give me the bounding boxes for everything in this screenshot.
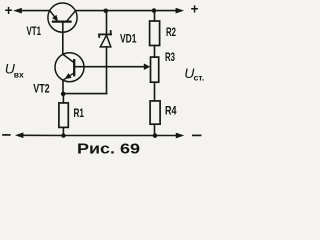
wire VT2 emitter down to node D <box>62 80 64 94</box>
resistor R1 <box>59 103 68 128</box>
label U_вх (input voltage) <box>5 61 24 80</box>
label U_ст (stabilized output voltage) <box>184 65 204 82</box>
wire bottom rail left to − terminal (with left arrow) <box>22 134 63 136</box>
node D (junction dot, emitter / R1 / zener wire) <box>61 92 66 97</box>
svg-text:+: + <box>191 2 199 17</box>
svg-text:вх: вх <box>14 69 24 79</box>
svg-text:ст.: ст. <box>194 72 205 82</box>
wire VT2 base to R3 wiper <box>74 66 144 68</box>
node A (junction dot, VD1 tap on top rail) <box>104 9 109 14</box>
node F (junction dot, R4 on bottom rail) <box>153 133 158 138</box>
node E (junction dot, R1 on bottom rail) <box>61 133 65 137</box>
wire node A to node B <box>106 10 154 12</box>
potentiometer R3 <box>151 57 159 82</box>
wiper arrow into R3 <box>144 63 150 70</box>
wire VT1 base to VT2 collector <box>62 22 64 55</box>
label VT2 <box>33 83 50 95</box>
label R3 <box>165 52 175 64</box>
svg-text:Рис. 69: Рис. 69 <box>77 141 140 156</box>
wire VD1 anode down to node C (crosses base wire, no connection) <box>106 47 108 94</box>
wire bottom rail: node E to node F <box>63 135 155 137</box>
svg-text:VD1: VD1 <box>120 33 137 45</box>
label R1 <box>74 108 85 120</box>
node B (junction dot, R2 tap on top rail) <box>152 8 157 13</box>
terminal + (output, top-right) <box>191 2 199 17</box>
svg-text:R4: R4 <box>165 106 177 118</box>
wire input + to VT1 emitter (with left arrow) <box>21 10 50 12</box>
zener diode VD1 <box>99 31 111 47</box>
label VT1 <box>27 26 42 38</box>
wire R3 to R4 <box>154 82 156 101</box>
label R4 <box>165 106 177 118</box>
wire node D to R1 <box>62 94 64 103</box>
svg-text:R1: R1 <box>74 108 85 120</box>
wire R1 to node E <box>62 127 64 135</box>
wire R2 to R3 <box>154 46 156 58</box>
terminal + (input, top-left) <box>5 3 13 18</box>
svg-text:R2: R2 <box>166 27 176 39</box>
svg-text:VT2: VT2 <box>33 83 50 95</box>
resistor R2 <box>150 21 160 46</box>
wire R4 to node F <box>154 124 156 135</box>
terminal − (output, bottom-right) <box>193 134 201 136</box>
transistor VT2 <box>55 53 84 82</box>
caption Рис. 69 <box>77 141 140 157</box>
wire node B to output + (with right arrow) <box>154 10 177 12</box>
svg-text:R3: R3 <box>165 52 175 64</box>
wire node D to VD1 anode (node C corner) <box>63 93 106 95</box>
label R2 <box>166 27 176 39</box>
wire node A to VD1 cathode <box>106 11 108 34</box>
label VD1 <box>120 33 137 45</box>
wire node B to R2 <box>154 11 156 21</box>
transistor VT1 <box>48 3 77 32</box>
svg-text:+: + <box>5 3 13 18</box>
resistor R4 <box>150 101 160 124</box>
svg-text:VT1: VT1 <box>27 26 42 38</box>
terminal − (input, bottom-left) <box>3 134 10 136</box>
wire node F to output − (with right arrow) <box>155 135 177 137</box>
wire VT1 collector to node A <box>75 10 106 12</box>
